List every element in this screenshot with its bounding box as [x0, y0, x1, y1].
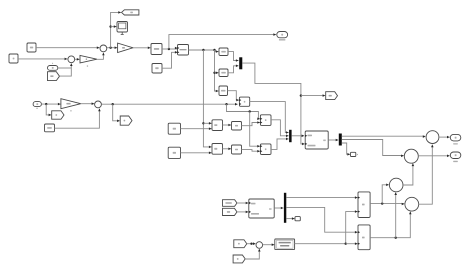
junction branch to D [249, 110, 251, 112]
wire S4 to conversion block [263, 244, 275, 246]
constant block t [9, 54, 18, 63]
arrowhead [323, 94, 326, 97]
label outport2 [453, 161, 458, 162]
wire bus1 down to sumB [203, 50, 211, 147]
fcn block rect2 [358, 225, 370, 250]
arrowhead [286, 135, 289, 138]
wire circle3 to circle2 bottom [403, 164, 413, 186]
sum circle2 [404, 149, 418, 163]
arrowhead [228, 148, 231, 151]
arrowhead [175, 47, 178, 50]
gain G3 [61, 99, 81, 109]
wire t to sum S1 [18, 58, 67, 60]
subsystem SS2 dq2abc [305, 131, 328, 149]
SS3 text lines [251, 203, 272, 215]
wire tag w4 to S4 bottom [245, 249, 259, 259]
rect1 input port 2 [358, 210, 360, 212]
arrowhead [77, 58, 80, 61]
block reference iq [168, 147, 180, 158]
product block C [260, 115, 271, 126]
arrowhead [209, 122, 212, 125]
wire tag W3 to sum S4 [247, 243, 256, 245]
arrowhead [216, 50, 219, 53]
arrowhead [216, 72, 219, 75]
constant block tv [27, 43, 36, 52]
SS2 text lines [308, 135, 326, 147]
arrowhead [70, 63, 73, 66]
display block 2 [295, 217, 300, 221]
arrowhead [236, 59, 239, 62]
arrowhead [355, 210, 358, 213]
junction u-line branch [225, 103, 227, 105]
arrowhead [115, 46, 118, 49]
arrowhead [117, 120, 120, 123]
block PI2 [232, 145, 242, 154]
junction bus1 sumA [202, 122, 204, 124]
demux1 bar [339, 134, 342, 146]
arrowhead [355, 242, 358, 245]
junction u [45, 103, 47, 105]
junction bus1 start [202, 49, 204, 51]
arrowhead [347, 153, 350, 156]
arrowhead [394, 192, 397, 195]
arrowhead [336, 139, 339, 142]
wire u branch to product C [227, 104, 260, 119]
from tag theta [223, 208, 238, 215]
arrowhead [114, 25, 117, 28]
arrowhead [236, 65, 239, 68]
gain G1 [80, 55, 97, 63]
wire demux1 out2 to circle2 [342, 140, 404, 156]
arrowhead [402, 203, 405, 206]
junction theta [168, 48, 170, 50]
wire iq ref to sumB [181, 152, 212, 154]
wire to scope [111, 26, 117, 28]
arrowhead [286, 131, 289, 134]
arrowhead [258, 249, 261, 252]
wire theta to rotor outport [169, 35, 276, 49]
SS3 input port 2 [249, 211, 251, 213]
arrowhead [65, 58, 68, 61]
wire S1 to gain G1 [75, 58, 79, 60]
wire bus1 to sumA [203, 122, 211, 124]
product circle3 [389, 178, 403, 192]
wire sumA to PI1 [223, 124, 232, 126]
wire SS2 to demux1 [328, 139, 338, 141]
wire Fv to SS1 input 2 [162, 52, 177, 68]
wire G2 to integrator [133, 47, 150, 49]
B1 input port 1 [239, 99, 241, 101]
arrowhead [235, 103, 238, 106]
wire PI1 to product C [242, 123, 260, 126]
subsystem SS1 speed [178, 45, 189, 56]
from tag w4 [233, 255, 245, 263]
gain G2 [118, 43, 133, 52]
sum block B sign text [214, 148, 217, 150]
sum S3 [95, 101, 102, 108]
arrowhead [253, 242, 256, 245]
arrowhead [209, 152, 212, 155]
arrowhead [412, 164, 415, 167]
wire block to S3 bottom [55, 109, 100, 129]
wire bus2 down [215, 50, 219, 91]
block lower left [45, 124, 55, 132]
junction to goto3 [300, 94, 302, 96]
arrowhead [302, 135, 305, 138]
arrowhead [257, 121, 260, 124]
junction rect2 out [395, 237, 397, 239]
demux2 bar [284, 193, 286, 223]
arrowhead [92, 102, 95, 105]
goto tag W2 [120, 116, 132, 125]
arrowhead [281, 207, 284, 210]
wire G1 to S2 bottom [97, 53, 104, 60]
wire D to mux2 port3 [271, 139, 289, 150]
arrowhead [216, 90, 219, 93]
conversion block text [276, 240, 293, 248]
scope block [117, 22, 128, 35]
wire to goto tag3 [301, 95, 325, 97]
gain G1 name label [87, 65, 88, 66]
wire to goto W2 [113, 104, 120, 121]
arrowhead [292, 217, 295, 220]
sum block A [212, 120, 223, 131]
outport oval Rotor [277, 32, 288, 38]
wire demux2 out1 to rect1 [286, 197, 357, 199]
goto tag sincos [326, 92, 338, 100]
goto flag w [122, 10, 139, 15]
oval tiny label [52, 63, 53, 64]
junction conversion out [345, 243, 347, 245]
mux2 bar [289, 130, 292, 142]
arrowhead [58, 103, 61, 106]
wire demux1 out3 to display1 [342, 143, 350, 154]
sum S2 [100, 45, 107, 52]
rect2 input port 2 [358, 243, 360, 245]
wire Fv tag to S1 bottom [60, 63, 72, 76]
outport oval 2 [450, 152, 461, 159]
from tag W3 [234, 240, 247, 248]
arrowhead [302, 143, 305, 146]
wire PI2 to product D [242, 150, 260, 152]
C input port 1 [260, 118, 262, 120]
product block D [260, 144, 271, 155]
wire oval to junction [58, 67, 72, 69]
junction to scope [109, 25, 111, 27]
subsystem SS3 abc2dq [249, 199, 274, 218]
SS2 input port 2 [305, 143, 307, 145]
arrowhead [447, 155, 450, 158]
junction to goto W2 [112, 103, 114, 105]
wire mux2 to SS2 [292, 135, 304, 137]
junction on S2 output [109, 47, 111, 49]
wire up to goto flag [111, 12, 121, 47]
wire tv to sum S2 [36, 47, 99, 49]
arrowhead [228, 124, 231, 127]
arrowhead [355, 196, 358, 199]
wire conversion to rect1 in2 [295, 212, 358, 244]
wire SS1 out to sin [189, 50, 219, 52]
arrowhead [236, 99, 239, 102]
arrowhead [246, 211, 249, 214]
wire sin to mux1 [228, 52, 239, 61]
arrowhead [97, 46, 100, 49]
label Rotor [279, 39, 286, 40]
arrowhead [447, 136, 450, 139]
goto tag W [52, 111, 64, 119]
arrowhead [273, 33, 276, 36]
wire SS3 to demux2 [274, 207, 283, 209]
block PI1 [232, 122, 242, 131]
arrowhead [401, 155, 404, 158]
SS2 input port 1 [305, 135, 307, 137]
arrowhead [257, 118, 260, 121]
arrowhead [409, 212, 412, 215]
B1 input port 2 [239, 103, 241, 105]
arrowhead [257, 145, 260, 148]
wire id ref to sumA [181, 128, 212, 130]
conversion text block [275, 239, 295, 250]
wire G3 to sum S3 [81, 103, 94, 105]
wire branch to circle3 [382, 185, 389, 204]
wire sumB to PI2 [223, 148, 232, 150]
wire circle1 to outport1 [439, 136, 450, 138]
wire u to goto W [46, 104, 51, 115]
product circle4 [405, 197, 419, 211]
rect2 input port 1 [358, 231, 360, 233]
block reference id [168, 123, 180, 134]
wire trig3 to B1 [228, 91, 239, 100]
arrowhead [175, 51, 178, 54]
sum circle1 [426, 131, 439, 144]
display block 1 [351, 152, 356, 156]
wire S3 long output line [102, 103, 238, 105]
wire integrator to subsystem SS1 [162, 48, 177, 50]
sum block A sign text [214, 124, 217, 126]
D input port 2 [260, 150, 262, 152]
wire tagB to SS3 [237, 211, 248, 213]
arrowhead [98, 109, 101, 112]
wire branch to circle3 bottom [395, 192, 397, 237]
arrowhead [272, 243, 275, 246]
arrowhead [286, 138, 289, 141]
wire rect1 to circle4 [370, 203, 404, 205]
C input port 2 [260, 121, 262, 123]
wire branch to product D [250, 112, 260, 147]
block sin [219, 48, 228, 56]
wire mux1 to SS2 input 2 [242, 63, 304, 144]
arrowhead [49, 114, 52, 117]
junction bus2 cos [213, 72, 215, 74]
arrowhead [386, 184, 389, 187]
junction bus2 start [213, 49, 215, 51]
wire u to gain G3 [41, 103, 60, 105]
gain G3 name label [70, 110, 71, 111]
integrator block [151, 44, 162, 55]
wire conversion to rect2 in2 [346, 243, 358, 245]
wire demux1 out1 to circle1 [342, 135, 426, 137]
rect1 input port 1 [358, 196, 360, 198]
arrowhead [431, 145, 434, 148]
arrowhead [148, 47, 151, 50]
rect1 center mark [362, 204, 365, 206]
SS1 input port 2 [177, 51, 179, 53]
wire circle2 to outport2 [418, 155, 449, 157]
sum S1 [68, 56, 75, 63]
wire bus2 to cos [215, 72, 219, 74]
arrowhead [257, 150, 260, 153]
wire rect2 to circle4 bottom [370, 212, 410, 238]
SS1 input port 1 [177, 47, 179, 49]
small oval step block [48, 66, 58, 71]
wire demux2 out3 to display2 [286, 218, 294, 220]
arrowhead [423, 135, 426, 138]
from tag Iabc [223, 200, 238, 207]
mux1 bar [239, 57, 242, 69]
sum block B [212, 144, 223, 155]
fcn block rect1 [358, 192, 370, 218]
sum S4 [256, 242, 263, 249]
display1 tiny label [357, 154, 358, 155]
wire demux2 out2 to rect2 [286, 207, 357, 232]
arrowhead [355, 231, 358, 234]
arrowhead [246, 202, 249, 205]
label outport1 [453, 143, 458, 144]
D input port 1 [260, 145, 262, 147]
wire cos to mux1 [228, 66, 239, 73]
product block B1 [239, 97, 249, 106]
arrowhead [118, 11, 121, 14]
arrowhead [102, 53, 105, 56]
inport oval u [33, 102, 41, 107]
block cos [219, 69, 228, 77]
junction rect1 out [381, 202, 383, 204]
wire S2 to gain G2 [107, 47, 117, 49]
rect2 center mark [362, 237, 365, 239]
junction before S4 [250, 243, 252, 245]
from tag Fv [48, 72, 60, 81]
block Fv source [152, 64, 162, 74]
wire C to mux2 port2 [271, 120, 289, 136]
SS3 input port 1 [249, 202, 251, 204]
outport oval 1 [450, 134, 461, 141]
arrowhead [209, 146, 212, 149]
wire tagA to SS3 [237, 202, 248, 204]
block trig3 [219, 86, 228, 96]
label u [36, 108, 37, 109]
wire B1 to mux2 port1 [250, 102, 289, 133]
subsystem SS1 text [180, 49, 187, 51]
wire circle4 to circle1 bottom [419, 145, 433, 205]
arrowhead [209, 127, 212, 130]
